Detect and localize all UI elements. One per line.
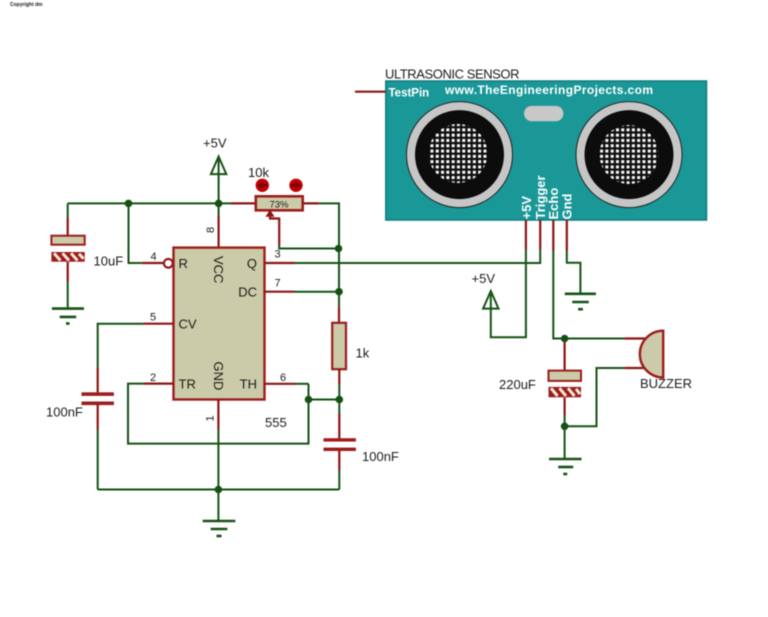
svg-text:+5V: +5V bbox=[472, 271, 496, 286]
left transducer bbox=[407, 102, 513, 208]
svg-text:2: 2 bbox=[150, 372, 156, 384]
potentiometer RV1 10k bbox=[248, 165, 303, 211]
ground (under C1) bbox=[52, 309, 84, 324]
svg-text:DC: DC bbox=[238, 285, 257, 300]
svg-text:R: R bbox=[179, 256, 188, 271]
wire: TH pin 6 bbox=[265, 383, 309, 385]
svg-text:Copyright dm: Copyright dm bbox=[10, 2, 43, 8]
wire: junction link bbox=[309, 399, 340, 401]
svg-text:10k: 10k bbox=[248, 165, 269, 180]
ground (buzzer) bbox=[549, 426, 582, 474]
node: TR/TH junction bbox=[305, 396, 313, 404]
svg-text:1k: 1k bbox=[356, 346, 370, 361]
pin Echo of sensor bbox=[553, 220, 646, 339]
ground (sensor) bbox=[565, 294, 596, 309]
svg-text:ULTRASONIC SENSOR: ULTRASONIC SENSOR bbox=[385, 67, 520, 82]
node: ground junction bbox=[215, 486, 223, 494]
svg-text:10uF: 10uF bbox=[94, 254, 124, 269]
svg-text:100nF: 100nF bbox=[362, 449, 399, 464]
capacitor C2 100nF (left) bbox=[46, 392, 114, 489]
svg-text:TR: TR bbox=[179, 377, 196, 392]
wire: R pin 4 branch bbox=[129, 203, 164, 263]
svg-text:100nF: 100nF bbox=[46, 405, 83, 420]
pin +5V of sensor bbox=[491, 220, 526, 337]
pin bubble R bbox=[164, 259, 173, 268]
svg-text:CV: CV bbox=[179, 316, 197, 331]
resistor R1 1k bbox=[332, 323, 370, 400]
wire: +5V top rail bbox=[68, 203, 339, 322]
wire: bottom rail bbox=[98, 489, 340, 491]
node: rail/R-branch junction bbox=[125, 200, 133, 208]
svg-text:TH: TH bbox=[240, 377, 257, 392]
node: DC junction bbox=[335, 288, 343, 296]
ultrasonic sensor module bbox=[385, 67, 707, 221]
right transducer bbox=[576, 102, 682, 208]
svg-text:Gnd: Gnd bbox=[560, 193, 575, 219]
ground (main) bbox=[203, 490, 236, 537]
svg-text:4: 4 bbox=[151, 251, 157, 263]
node: wiper junction bbox=[335, 245, 343, 253]
svg-text:7: 7 bbox=[275, 278, 281, 290]
wire: GND pin 1 bbox=[217, 400, 219, 490]
svg-text:Q: Q bbox=[247, 256, 257, 271]
svg-text:73%: 73% bbox=[269, 200, 289, 211]
wire: buzzer return bbox=[565, 368, 644, 426]
node: rail/VCC junction bbox=[215, 200, 223, 208]
buzzer LS1 bbox=[640, 331, 692, 391]
pin Gnd of sensor bbox=[567, 220, 581, 293]
node: buzzer return junction bbox=[561, 423, 569, 431]
pot wiper arrow + wire bbox=[265, 210, 338, 249]
svg-text:VCC: VCC bbox=[211, 256, 226, 283]
svg-text:3: 3 bbox=[275, 249, 281, 261]
wire: TR pin 2 loop bbox=[128, 384, 309, 444]
svg-text:220uF: 220uF bbox=[499, 377, 536, 392]
capacitor C4 220uF bbox=[499, 339, 581, 427]
capacitor C1 10uF bbox=[51, 203, 123, 307]
svg-text:TestPin: TestPin bbox=[389, 88, 430, 100]
capacitor C3 100nF (right) bbox=[324, 400, 399, 490]
svg-text:8: 8 bbox=[205, 227, 217, 233]
IC U1 555 bbox=[174, 248, 287, 430]
svg-text:www.TheEngineeringProjects.com: www.TheEngineeringProjects.com bbox=[444, 83, 653, 97]
svg-text:+5V: +5V bbox=[519, 196, 534, 220]
wire: VCC pin 8 branch bbox=[218, 203, 220, 247]
wire: TestPin stub bbox=[355, 91, 386, 93]
wire: CV pin 5 branch bbox=[98, 324, 174, 393]
node: echo/220uF junction bbox=[561, 335, 569, 343]
power +5V symbol (right) bbox=[472, 271, 499, 311]
power +5V symbol (left) bbox=[203, 136, 227, 204]
node: 1k/100nF junction bbox=[336, 396, 344, 404]
pin Trigger of sensor bbox=[539, 220, 541, 249]
wire: DC pin 7 bbox=[265, 291, 340, 293]
rotate handle left bbox=[256, 179, 269, 192]
svg-text:BUZZER: BUZZER bbox=[640, 376, 692, 391]
svg-text:555: 555 bbox=[265, 415, 287, 430]
svg-text:6: 6 bbox=[280, 372, 286, 384]
rotate handle right bbox=[289, 179, 302, 192]
svg-text:1: 1 bbox=[205, 415, 217, 421]
svg-text:GND: GND bbox=[211, 362, 226, 391]
svg-text:+5V: +5V bbox=[203, 136, 227, 151]
wire: Q pin 3 to Trigger bbox=[265, 249, 541, 263]
svg-text:5: 5 bbox=[150, 312, 156, 324]
